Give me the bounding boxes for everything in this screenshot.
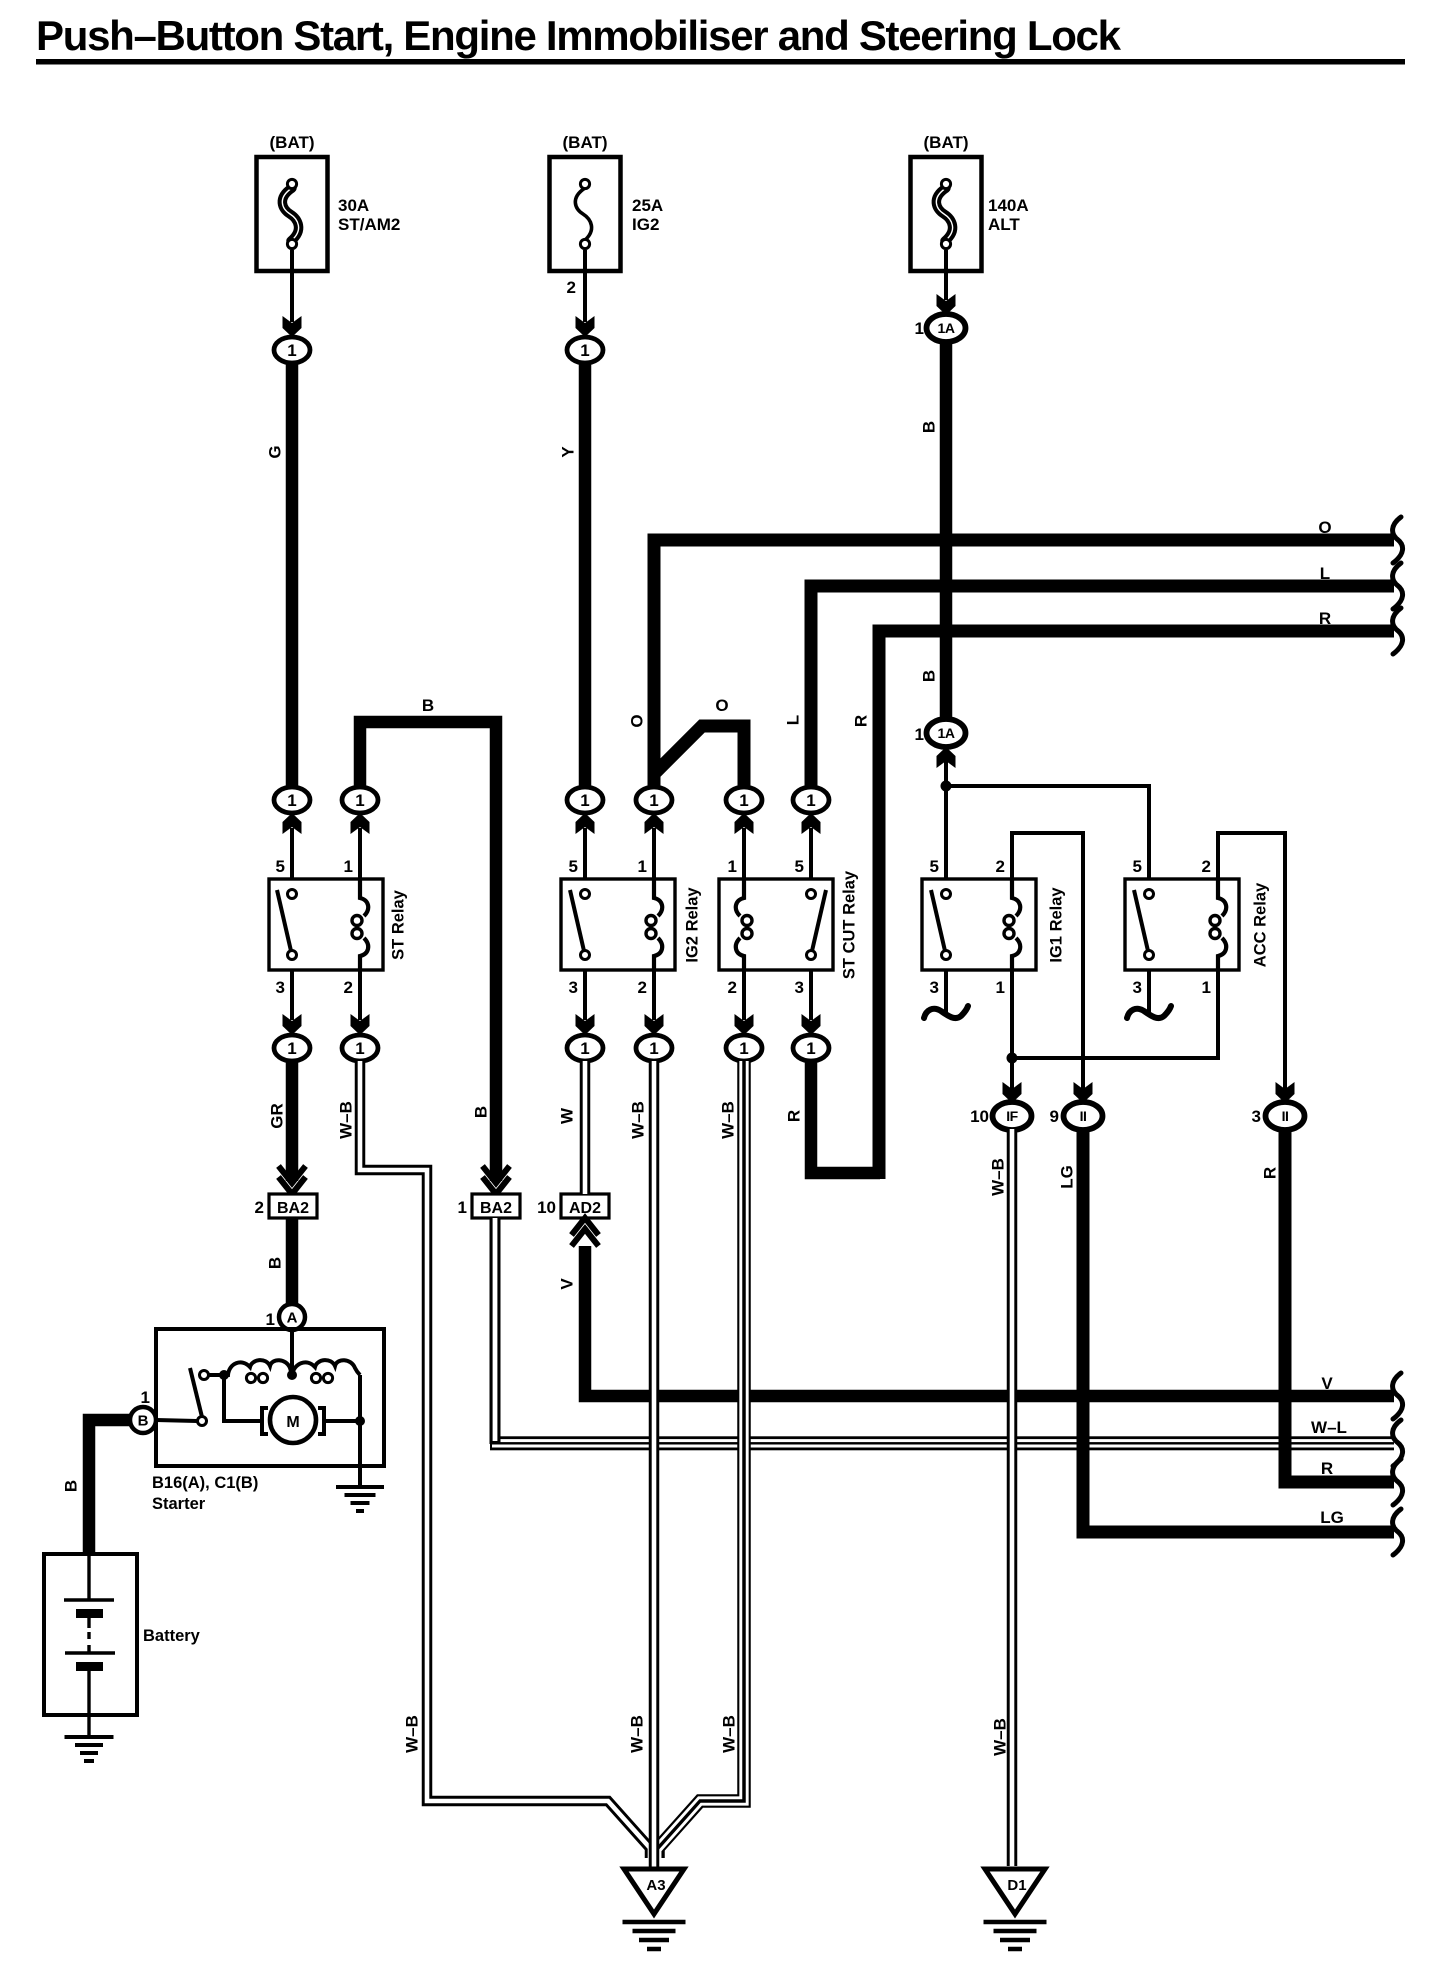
wire fuse1 to connector — [290, 250, 294, 322]
svg-text:1: 1 — [141, 1388, 150, 1407]
wire into conn 1 above ST CUT pin1 — [742, 828, 746, 879]
junction block BA2 #2 — [269, 1194, 317, 1218]
connector 1 below fuse2 — [567, 337, 603, 363]
svg-text:IG2: IG2 — [632, 215, 659, 234]
continuation curl LG — [1393, 1509, 1403, 1555]
svg-text:O: O — [715, 696, 728, 715]
svg-text:Y: Y — [559, 446, 578, 458]
junction dot IG1 pin1 — [1007, 1053, 1018, 1064]
svg-text:30A: 30A — [338, 196, 369, 215]
svg-text:1: 1 — [915, 319, 924, 338]
arrow into connector 1A — [937, 294, 956, 315]
svg-text:W: W — [558, 1107, 577, 1124]
svg-text:1: 1 — [580, 1039, 589, 1058]
svg-text:ACC Relay: ACC Relay — [1252, 882, 1270, 967]
svg-text:B: B — [920, 670, 939, 682]
svg-text:ALT: ALT — [988, 215, 1020, 234]
wire junction to ACC pin5 — [946, 786, 1149, 879]
wire B BA2 to A conn — [286, 1218, 299, 1305]
wire into conn 1 above ST CUT pin5 — [809, 828, 813, 879]
continuation curl L — [1393, 563, 1403, 609]
svg-text:3: 3 — [569, 978, 578, 997]
wire fuse2 to connector — [583, 250, 587, 322]
svg-text:R: R — [1261, 1167, 1280, 1179]
relay IG1 box — [922, 879, 1036, 970]
arrow up conn 1 above ST relay pin5 — [283, 813, 302, 834]
svg-text:1: 1 — [458, 1198, 467, 1217]
svg-text:Battery: Battery — [143, 1627, 201, 1645]
wire W-L bundle horizontal — [490, 1436, 1394, 1450]
svg-text:1: 1 — [649, 791, 658, 810]
svg-text:B: B — [138, 1413, 149, 1430]
junction dot motor right — [355, 1416, 365, 1426]
connector 1A (engine room) — [927, 314, 966, 342]
relay ST CUT box — [719, 879, 833, 970]
svg-text:LG: LG — [1058, 1165, 1077, 1189]
wire B starter to battery — [89, 1420, 131, 1556]
battery plates — [87, 1556, 90, 1600]
wire W-B from IG2 pin2 to A3 — [649, 1061, 660, 1867]
relay IG1 coil — [1012, 879, 1020, 916]
wire G (fuse1 to ST relay) — [286, 363, 299, 789]
svg-text:3: 3 — [795, 978, 804, 997]
starter box — [156, 1329, 384, 1466]
svg-text:V: V — [1321, 1374, 1333, 1393]
svg-text:O: O — [628, 714, 647, 727]
svg-text:25A: 25A — [632, 196, 663, 215]
connector II 3 — [1266, 1102, 1305, 1130]
wire relay pin down x=654 — [652, 970, 656, 1020]
svg-text:ST/AM2: ST/AM2 — [338, 215, 400, 234]
svg-text:2: 2 — [255, 1198, 264, 1217]
svg-text:2: 2 — [638, 978, 647, 997]
conn 1 above ST relay pin1 — [342, 787, 378, 813]
arrow down into conn x=585 — [576, 1014, 595, 1035]
svg-text:2: 2 — [567, 278, 576, 297]
relay ST switch — [288, 890, 297, 899]
wire IG1 pin1 to ACC pin1 — [1012, 970, 1218, 1058]
svg-text:IF: IF — [1006, 1108, 1018, 1124]
connector 1 below relay x=292 — [274, 1035, 310, 1061]
svg-text:M: M — [286, 1414, 299, 1431]
ground symbol D1 — [984, 1920, 1047, 1925]
connector 1 below relay x=654 — [636, 1035, 672, 1061]
wire Y (fuse2 to IG2 relay) — [579, 363, 592, 789]
chevrons V below AD2 — [572, 1229, 599, 1246]
conn 1 above ST relay pin5 — [274, 787, 310, 813]
svg-text:W–L: W–L — [1311, 1418, 1347, 1437]
wire ACC pin2 to II(3) — [1218, 833, 1285, 1100]
svg-text:GR: GR — [268, 1103, 287, 1129]
svg-text:B: B — [472, 1106, 491, 1118]
wire R loop (ST CUT pin3 down) — [811, 1061, 880, 1173]
svg-text:1: 1 — [649, 1039, 658, 1058]
arrow down into II(3) — [1276, 1082, 1295, 1103]
ground symbol battery — [65, 1735, 114, 1739]
svg-text:(BAT): (BAT) — [563, 133, 608, 152]
arrow down into conn x=744 — [735, 1014, 754, 1035]
connector 1A lower — [927, 719, 966, 747]
svg-text:R: R — [852, 715, 871, 727]
svg-text:R: R — [1321, 1459, 1333, 1478]
svg-text:IG2 Relay: IG2 Relay — [684, 887, 702, 963]
svg-text:5: 5 — [276, 857, 285, 876]
fuse 25A IG2 — [550, 157, 621, 271]
svg-text:ST Relay: ST Relay — [390, 889, 408, 960]
motor M — [270, 1397, 316, 1443]
arrow up conn 1 above ST relay pin1 — [351, 813, 370, 834]
wire into conn 1 above ST relay pin1 — [358, 828, 362, 879]
wire battery to ground — [87, 1715, 90, 1737]
svg-text:BA2: BA2 — [480, 1200, 512, 1217]
svg-text:L: L — [784, 715, 803, 725]
relay IG1 switch — [942, 890, 951, 899]
svg-text:W–B: W–B — [989, 1158, 1008, 1196]
svg-text:9: 9 — [1050, 1107, 1059, 1126]
svg-text:2: 2 — [728, 978, 737, 997]
svg-text:1A: 1A — [938, 725, 955, 741]
wire ACC pin3 stub — [1147, 970, 1151, 1013]
wire W-L from BA2#1 down — [490, 1218, 501, 1444]
arrow up conn 1 above ST CUT pin5 — [802, 813, 821, 834]
conn 1 above ST CUT pin5 — [793, 787, 829, 813]
svg-text:W–B: W–B — [991, 1718, 1010, 1756]
wire R down and right — [1285, 1129, 1394, 1482]
svg-text:1: 1 — [806, 1039, 815, 1058]
arrow into connector 1 (fuse1) — [283, 316, 302, 337]
wire O branch diagonal — [654, 726, 744, 789]
svg-text:D1: D1 — [1007, 1877, 1026, 1894]
svg-text:1: 1 — [638, 857, 647, 876]
wire IG1 pin3 stub — [944, 970, 948, 1013]
svg-text:2: 2 — [1202, 857, 1211, 876]
relay IG2 box — [561, 879, 675, 970]
wire W-B from IF to D1 — [1007, 1129, 1018, 1866]
junction dot A/coil — [287, 1370, 297, 1380]
wire B conn to switch — [156, 1420, 197, 1421]
svg-text:1: 1 — [739, 1039, 748, 1058]
svg-text:BA2: BA2 — [277, 1200, 309, 1217]
svg-text:1A: 1A — [938, 320, 955, 336]
continuation squiggle IG1 pin3 — [924, 1006, 968, 1018]
svg-text:1: 1 — [915, 725, 924, 744]
svg-text:A3: A3 — [646, 1877, 665, 1894]
junction dot coil left — [219, 1370, 229, 1380]
conn 1 above IG2 pin5 — [567, 787, 603, 813]
svg-text:W–B: W–B — [403, 1715, 422, 1753]
junction block BA2 #1 — [472, 1194, 520, 1218]
svg-text:R: R — [1319, 609, 1331, 628]
connector IF — [993, 1102, 1032, 1130]
relay ACC box — [1125, 879, 1239, 970]
svg-text:140A: 140A — [988, 196, 1029, 215]
svg-text:W–B: W–B — [720, 1715, 739, 1753]
relay IG2 switch — [581, 890, 590, 899]
wire into conn 1 above IG2 pin1 — [652, 828, 656, 879]
relay ST CUT switch — [807, 890, 816, 899]
arrow down into II(9) — [1074, 1082, 1093, 1103]
wire motor to right — [324, 1419, 360, 1423]
svg-text:1: 1 — [580, 791, 589, 810]
arrow up conn 1 above ST CUT pin1 — [735, 813, 754, 834]
svg-text:L: L — [1320, 564, 1330, 583]
svg-text:3: 3 — [930, 978, 939, 997]
connector 1 below relay x=811 — [793, 1035, 829, 1061]
svg-text:1: 1 — [344, 857, 353, 876]
svg-text:1: 1 — [806, 791, 815, 810]
relay IG2 coil — [654, 879, 662, 916]
svg-text:10: 10 — [970, 1107, 989, 1126]
svg-text:2: 2 — [344, 978, 353, 997]
connector A starter — [279, 1304, 305, 1330]
svg-text:1: 1 — [287, 341, 296, 360]
svg-text:3: 3 — [1133, 978, 1142, 997]
arrow into connector 1 (fuse2) — [576, 316, 595, 337]
svg-text:IG1 Relay: IG1 Relay — [1048, 887, 1066, 963]
svg-text:V: V — [558, 1278, 577, 1290]
svg-text:B: B — [422, 696, 434, 715]
svg-text:5: 5 — [930, 857, 939, 876]
svg-text:1: 1 — [355, 1039, 364, 1058]
wire coil right down to ground — [358, 1375, 362, 1487]
wire relay pin down x=585 — [583, 970, 587, 1020]
svg-text:W–B: W–B — [337, 1101, 356, 1139]
connector 1 below relay x=585 — [567, 1035, 603, 1061]
connector II 9 — [1064, 1102, 1103, 1130]
wire W from IG2 pin3 to AD2 — [580, 1061, 591, 1194]
svg-text:ST CUT Relay: ST CUT Relay — [841, 870, 859, 979]
junction block AD2 — [561, 1194, 609, 1218]
ground triangle A3 — [624, 1869, 684, 1914]
wire GR to BA2 — [286, 1061, 299, 1181]
relay ST coil — [360, 879, 368, 916]
fuse 30A ST/AM2 — [257, 157, 328, 271]
arrow down into conn x=811 — [802, 1014, 821, 1035]
starter switch top terminal — [200, 1371, 209, 1380]
svg-text:II: II — [1080, 1108, 1087, 1124]
svg-text:10: 10 — [537, 1198, 556, 1217]
svg-text:A: A — [287, 1310, 298, 1327]
wire V down and right — [585, 1246, 1394, 1396]
svg-text:1: 1 — [287, 1039, 296, 1058]
svg-text:Starter: Starter — [152, 1495, 206, 1513]
relay ACC coil — [1218, 879, 1226, 916]
bus R run — [879, 631, 1394, 1179]
wire IG1 pin2 to II(9) — [1012, 833, 1083, 1100]
svg-text:(BAT): (BAT) — [270, 133, 315, 152]
svg-text:1: 1 — [996, 978, 1005, 997]
arrow up conn 1 above IG2 pin5 — [576, 813, 595, 834]
wire relay pin down x=292 — [290, 970, 294, 1020]
connector B starter — [130, 1407, 156, 1433]
starter switch blade — [190, 1368, 202, 1417]
svg-text:B: B — [62, 1480, 81, 1492]
svg-text:B16(A), C1(B): B16(A), C1(B) — [152, 1474, 258, 1492]
wire fuse3 to connector 1A — [944, 250, 948, 300]
svg-text:(BAT): (BAT) — [924, 133, 969, 152]
svg-text:1: 1 — [266, 1310, 275, 1329]
svg-text:B: B — [920, 421, 939, 433]
wire B elbow (ST relay pin1 up and over) — [360, 722, 496, 1181]
wire W-B from ST relay pin2 — [360, 1061, 650, 1858]
wire into conn 1 above IG2 pin5 — [583, 828, 587, 879]
svg-text:B: B — [266, 1257, 285, 1269]
wire A into starter — [290, 1330, 294, 1375]
arrow up conn 1 above IG2 pin1 — [645, 813, 664, 834]
svg-text:1: 1 — [1202, 978, 1211, 997]
continuation curl V — [1393, 1373, 1403, 1419]
starter switch bottom terminal — [198, 1417, 207, 1426]
starter field coil — [208, 1360, 292, 1375]
wire relay pin down x=744 — [742, 970, 746, 1020]
svg-text:R: R — [785, 1110, 804, 1122]
svg-text:W–B: W–B — [719, 1101, 738, 1139]
svg-text:3: 3 — [276, 978, 285, 997]
svg-text:1: 1 — [355, 791, 364, 810]
svg-text:LG: LG — [1320, 1508, 1344, 1527]
continuation curl R2 — [1393, 1459, 1403, 1505]
title underline — [36, 59, 1405, 65]
svg-text:5: 5 — [1133, 857, 1142, 876]
arrow down into conn x=360 — [351, 1014, 370, 1035]
svg-text:W–B: W–B — [628, 1715, 647, 1753]
ground symbol A3 — [623, 1920, 686, 1925]
connector 1 below fuse1 — [274, 337, 310, 363]
wire B (ALT fuse down) — [940, 341, 953, 721]
arrow down into conn x=292 — [283, 1014, 302, 1035]
svg-text:1: 1 — [287, 791, 296, 810]
arrow down into conn x=654 — [645, 1014, 664, 1035]
svg-text:5: 5 — [795, 857, 804, 876]
wire relay pin down x=811 — [809, 970, 813, 1020]
svg-text:II: II — [1282, 1108, 1289, 1124]
ground symbol starter — [336, 1485, 384, 1489]
continuation curl R — [1393, 608, 1403, 654]
battery box — [44, 1554, 137, 1715]
wire 1A to junction and IG1 pin5 — [944, 760, 948, 879]
conn 1 above ST CUT pin1 — [726, 787, 762, 813]
chevrons B into BA2#1 — [483, 1166, 510, 1183]
svg-text:Push–Button Start, Engine Immo: Push–Button Start, Engine Immobiliser an… — [36, 12, 1122, 59]
bus O elbow and run — [654, 540, 1394, 789]
ground triangle D1 — [985, 1869, 1045, 1914]
chevrons GR into BA2 — [279, 1166, 306, 1183]
fuse 140A ALT — [911, 157, 982, 271]
wire junction to IF — [1010, 1058, 1014, 1100]
continuation squiggle ACC pin3 — [1127, 1006, 1171, 1018]
continuation curl O — [1393, 517, 1403, 563]
svg-text:1: 1 — [739, 791, 748, 810]
svg-text:2: 2 — [996, 857, 1005, 876]
wire into conn 1 above ST relay pin5 — [290, 828, 294, 879]
arrow down into IF — [1003, 1082, 1022, 1103]
relay ACC switch — [1145, 890, 1154, 899]
continuation curl W-L — [1393, 1420, 1403, 1466]
svg-text:O: O — [1318, 518, 1331, 537]
wire relay pin down x=360 — [358, 970, 362, 1020]
svg-text:1: 1 — [728, 857, 737, 876]
relay ST CUT coil — [736, 879, 744, 916]
svg-text:3: 3 — [1252, 1107, 1261, 1126]
svg-text:G: G — [266, 445, 285, 458]
connector 1 below relay x=360 — [342, 1035, 378, 1061]
arrow up into connector 1A lower — [937, 747, 956, 768]
conn 1 above IG2 pin1 — [636, 787, 672, 813]
svg-text:1: 1 — [580, 341, 589, 360]
wire coil branch to motor — [224, 1375, 262, 1421]
connector 1 below relay x=744 — [726, 1035, 762, 1061]
svg-text:W–B: W–B — [629, 1101, 648, 1139]
wire W-B from ST CUT pin2 to A3 — [658, 1061, 744, 1858]
bus L elbow and run — [811, 586, 1394, 787]
svg-text:5: 5 — [569, 857, 578, 876]
relay ST box — [269, 879, 383, 970]
wire LG down and right — [1083, 1129, 1394, 1532]
junction dot — [941, 781, 952, 792]
